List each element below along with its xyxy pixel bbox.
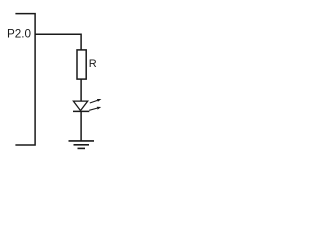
wire LED to ground [80, 111, 82, 140]
microcontroller port outline U1 (open box) [15, 14, 35, 145]
resistor R [77, 50, 86, 79]
LED D1 cathode bar [73, 110, 89, 112]
ground bar 1 [69, 140, 95, 142]
ground bar 2 [74, 144, 90, 146]
wire resistor to LED [80, 79, 82, 101]
LED D1 anode triangle [73, 101, 87, 111]
LED emission arrow 2 [89, 107, 101, 111]
LED emission arrow 1 [90, 99, 102, 103]
ground bar 3 [78, 147, 86, 149]
wire pin P2.0 to resistor [35, 34, 81, 50]
svg-text:R: R [89, 58, 97, 70]
svg-text:P2.0: P2.0 [7, 28, 32, 41]
